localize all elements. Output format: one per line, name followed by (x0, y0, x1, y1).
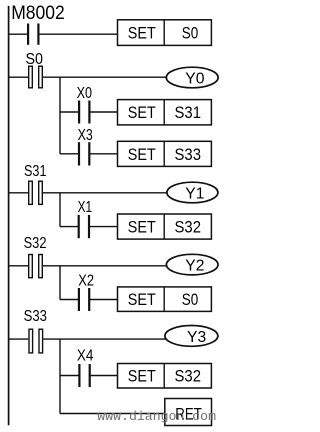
instruction box SET S31 (118, 100, 212, 125)
svg-text:SET: SET (128, 103, 156, 122)
svg-text:M8002: M8002 (11, 2, 64, 24)
contact X4 (77, 348, 94, 388)
contact M8002 (11, 2, 64, 45)
svg-text:SET: SET (128, 218, 156, 237)
svg-text:X3: X3 (78, 127, 93, 144)
svg-text:SET: SET (128, 24, 156, 43)
instruction box SET S32 (118, 214, 212, 239)
coil Y3 (165, 326, 218, 347)
branch wire rung 2 (59, 77, 61, 154)
svg-text:S33: S33 (24, 308, 48, 325)
instruction box SET S0 (118, 20, 212, 46)
svg-text:S32: S32 (175, 367, 202, 386)
rung 3 wire (9, 192, 167, 194)
contact X1 (78, 199, 93, 238)
STL contact S32 (24, 235, 47, 278)
coil Y2 (166, 254, 218, 275)
RET box (165, 399, 212, 426)
svg-text:Y1: Y1 (185, 185, 204, 202)
svg-text:S33: S33 (175, 145, 202, 164)
svg-text:S0: S0 (182, 24, 199, 43)
instruction box SET S0 (2) (118, 287, 212, 312)
svg-text:Y3: Y3 (187, 329, 206, 346)
X2 rung wire (60, 299, 118, 301)
contact X2 (78, 273, 94, 311)
svg-text:S0: S0 (182, 290, 199, 309)
branch wire rung 5 (59, 339, 61, 413)
rung 4 wire (9, 265, 167, 267)
svg-text:SET: SET (128, 290, 156, 309)
contact X3 (78, 127, 93, 165)
svg-text:X2: X2 (78, 273, 94, 290)
rung 5 wire (9, 338, 167, 340)
instruction box SET S32 (2) (118, 364, 212, 389)
svg-text:S0: S0 (26, 51, 44, 68)
svg-text:Y2: Y2 (185, 258, 204, 275)
X4 rung wire (60, 375, 118, 377)
svg-text:S31: S31 (175, 103, 202, 122)
X1 rung wire (60, 226, 118, 228)
svg-text:www.diangon.com: www.diangon.com (97, 409, 216, 424)
STL contact S31 (24, 163, 47, 205)
X3 rung wire (60, 153, 118, 155)
svg-text:S32: S32 (24, 235, 47, 252)
branch wire rung 3 (59, 193, 61, 227)
svg-text:SET: SET (128, 367, 156, 386)
coil Y1 (167, 182, 218, 203)
STL contact S33 (24, 308, 48, 353)
svg-text:X0: X0 (77, 85, 93, 102)
svg-text:SET: SET (128, 145, 156, 164)
rung 2 wire (9, 76, 167, 78)
X0 rung wire (60, 111, 118, 113)
svg-text:S31: S31 (24, 163, 47, 180)
coil Y0 (166, 67, 218, 88)
branch wire rung 4 (59, 266, 61, 300)
RET rung wire (60, 413, 165, 415)
svg-text:X4: X4 (77, 348, 94, 365)
rung 1 wire (9, 33, 118, 35)
left power rail (8, 6, 10, 425)
contact X0 (77, 85, 93, 124)
svg-text:S32: S32 (175, 218, 202, 237)
svg-text:X1: X1 (78, 199, 93, 216)
STL contact S0 (26, 51, 44, 88)
svg-text:Y0: Y0 (185, 70, 205, 87)
instruction box SET S33 (118, 141, 212, 166)
